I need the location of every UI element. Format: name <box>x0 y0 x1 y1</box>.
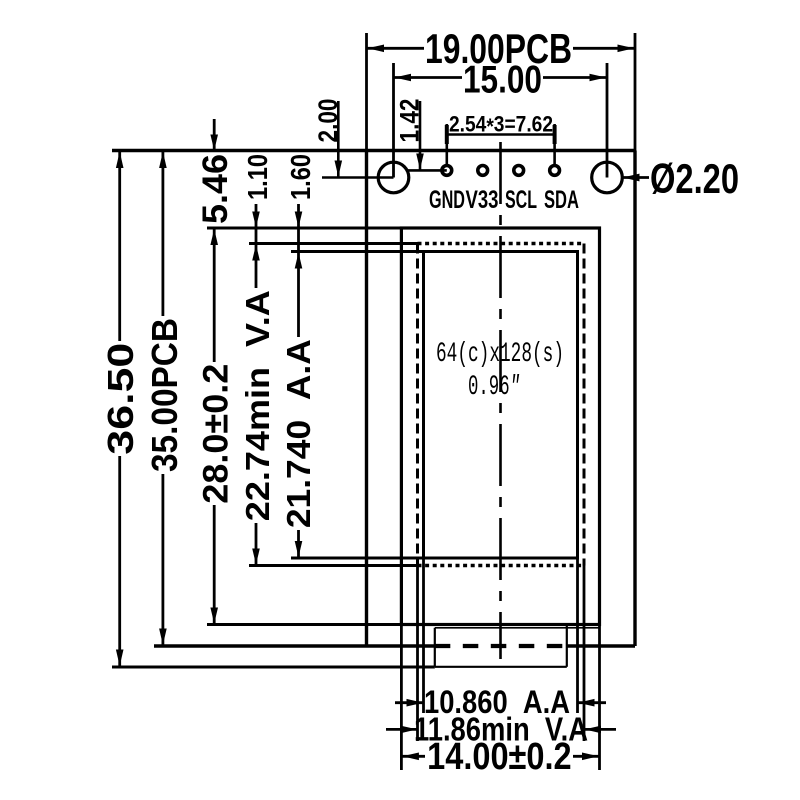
bottom extension line V.A right <box>583 566 586 742</box>
arrow diameter leader pointing left <box>623 174 640 182</box>
mounting hole right <box>592 162 623 193</box>
bottom extension line V.A left <box>416 566 419 742</box>
10.860 A.A dimension arrow tails <box>395 701 424 704</box>
36.50 dimension line lower segment <box>118 456 121 667</box>
arrow 1.42 down (tip at pin center line) <box>416 154 424 170</box>
svg-text:21.740 A.A: 21.740 A.A <box>280 339 317 528</box>
arrow 22.74 down at V.A bottom <box>252 549 260 565</box>
bottom extension line A.A right <box>576 558 579 713</box>
15.00 extension line left (through left hole) <box>392 63 395 178</box>
PCB bottom hidden edge dashes across flex <box>435 644 567 648</box>
arrow 1.60 down at glass top <box>295 212 303 228</box>
2.54*3=7.62 extension line pin1 <box>445 124 448 164</box>
svg-text:SDA: SDA <box>544 186 579 214</box>
pin hole SCL <box>514 166 524 176</box>
19.00PCB dimension line left segment <box>367 47 425 50</box>
28.0 dimension line lower segment <box>213 505 216 625</box>
vertical centerline (dash-dot) <box>499 142 502 659</box>
svg-text:GND: GND <box>429 186 465 214</box>
svg-text:22.74min V.A: 22.74min V.A <box>239 290 276 521</box>
PCB outline right edge <box>633 151 636 647</box>
1.60 dimension arrow tail above glass top <box>297 204 300 228</box>
2.00 dimension line vertical <box>337 101 340 178</box>
arrow 21.740 up at A.A top <box>295 253 303 269</box>
arrow 14.00 right pointing right <box>582 753 599 761</box>
arrow 10.860 left pointing right <box>407 699 424 707</box>
35.00PCB dimension line upper segment <box>161 151 164 317</box>
1.60 span segment glass top to A.A top <box>297 228 300 252</box>
diameter leader line <box>623 176 649 179</box>
A.A active area outline <box>424 252 578 559</box>
flex bottom extension line to 36.50 dimension <box>112 666 435 669</box>
arrow 35.00 up <box>159 152 167 169</box>
11.86min V.A dimension arrow tails <box>386 728 418 731</box>
V.A viewing area dotted top edge <box>418 242 585 245</box>
V.A bottom edge extension to left <box>249 564 418 567</box>
flex connector right edge <box>566 625 568 667</box>
svg-text:2.54*3=7.62: 2.54*3=7.62 <box>449 112 553 140</box>
arrow 21.740 down at A.A bottom <box>295 541 303 557</box>
2.54*3=7.62 extension line pin4 <box>553 124 556 164</box>
PCB outline top edge (extended left to 36.50 dimension line) <box>112 149 635 152</box>
arrow 28.0 down at glass bottom <box>210 608 218 624</box>
arrow 35.00 down <box>159 629 167 646</box>
19.00PCB extension line right <box>634 33 637 151</box>
display glass outline <box>401 228 599 625</box>
22.74min dimension line upper segment <box>255 244 258 289</box>
1.42 reference line to pin1 center <box>407 169 447 172</box>
svg-text:Ø2.20: Ø2.20 <box>650 155 739 202</box>
arrow 15.00 right <box>590 74 607 82</box>
arrow 36.50 up <box>116 152 124 169</box>
arrow 2.00 down (tip at hole center line) <box>335 161 343 177</box>
2.54 dimension end tick right <box>553 125 557 144</box>
2.54 dimension end tick left <box>445 125 449 144</box>
arrow 19.00 right <box>618 45 635 53</box>
flex connector bottom edge <box>435 666 567 668</box>
15.00 extension line right (through right hole) <box>606 63 609 178</box>
pin hole SDA <box>550 166 560 176</box>
pin hole GND <box>442 166 452 176</box>
arrow 10.860 right pointing left <box>578 699 595 707</box>
svg-text:5.46: 5.46 <box>196 154 235 224</box>
arrow 14.00 left pointing left <box>402 753 419 761</box>
5.46 dimension arrow tail above top line <box>213 119 216 151</box>
PCB outline bottom edge left solid segment (extended left to 35.00 dimension line) <box>154 644 435 647</box>
svg-text:15.00: 15.00 <box>463 59 542 102</box>
V.A top edge extension to left <box>249 242 418 245</box>
22.74min dimension line lower segment <box>255 523 258 566</box>
V.A dashed left edge <box>416 244 419 566</box>
glass top edge extension to left dimension lines <box>207 227 401 230</box>
15.00 dimension line right segment <box>543 76 607 79</box>
arrow 22.74 up at V.A top <box>252 245 260 261</box>
PCB outline left edge <box>365 151 368 647</box>
bottom extension line glass right <box>598 625 601 771</box>
19.00PCB extension line left <box>365 33 368 151</box>
V.A dashed right edge <box>583 244 586 566</box>
svg-text:V33: V33 <box>466 186 499 214</box>
svg-text:1.10: 1.10 <box>242 154 273 200</box>
1.10 dimension arrow tail above glass top <box>255 204 258 228</box>
28.0 dimension line upper segment <box>213 228 216 362</box>
svg-text:1.42: 1.42 <box>395 99 425 143</box>
svg-text:1.60: 1.60 <box>285 154 316 200</box>
glass bottom edge extension to left dimension lines <box>207 623 401 626</box>
svg-text:64(c)x128(s): 64(c)x128(s) <box>436 339 564 370</box>
arrow 11.86 left pointing right <box>401 726 418 734</box>
1.42 dimension line vertical <box>419 101 422 170</box>
arrow 19.00 left (tip at left extension) <box>368 45 385 53</box>
flex connector left edge <box>434 628 436 667</box>
svg-text:28.0±0.2: 28.0±0.2 <box>197 364 236 504</box>
21.740 dimension line upper segment <box>297 252 300 338</box>
A.A top edge extension to left <box>291 250 424 253</box>
2.54*3=7.62 dimension line <box>447 133 555 136</box>
arrow 11.86 right pointing left <box>585 726 602 734</box>
35.00PCB dimension line lower segment <box>161 474 164 646</box>
36.50 dimension line upper segment <box>118 151 121 342</box>
mounting hole left <box>378 162 409 193</box>
svg-text:2.00: 2.00 <box>313 99 343 143</box>
1.10 span segment glass top to V.A top <box>255 228 258 244</box>
21.740 dimension line lower segment <box>297 530 300 558</box>
glass bottom second thin line <box>435 627 600 629</box>
arrow 15.00 left <box>395 74 412 82</box>
svg-text:14.00±0.2: 14.00±0.2 <box>427 736 572 778</box>
arrow 1.10 down at glass top <box>252 212 260 228</box>
svg-text:35.00PCB: 35.00PCB <box>144 318 185 472</box>
pin hole V33 <box>478 166 488 176</box>
svg-text:36.50: 36.50 <box>100 343 141 455</box>
19.00PCB dimension line right segment <box>573 47 635 50</box>
bottom extension line glass left <box>400 625 403 771</box>
V.A dotted bottom edge <box>418 564 585 567</box>
15.00 dimension line left segment <box>394 76 463 79</box>
arrow 5.46 pointing down at PCB top <box>210 135 218 151</box>
arrow 28.0 up at glass top <box>210 229 218 245</box>
A.A bottom edge extension to left <box>291 557 424 560</box>
bottom extension line A.A left <box>422 558 425 713</box>
svg-text:0.96″: 0.96″ <box>468 372 520 403</box>
svg-text:SCL: SCL <box>505 186 537 214</box>
14.00 dimension line segments <box>401 755 425 758</box>
2.00 reference line to left hole center <box>322 176 394 179</box>
PCB outline bottom edge right solid segment <box>567 644 635 647</box>
arrow 36.50 down <box>116 650 124 667</box>
